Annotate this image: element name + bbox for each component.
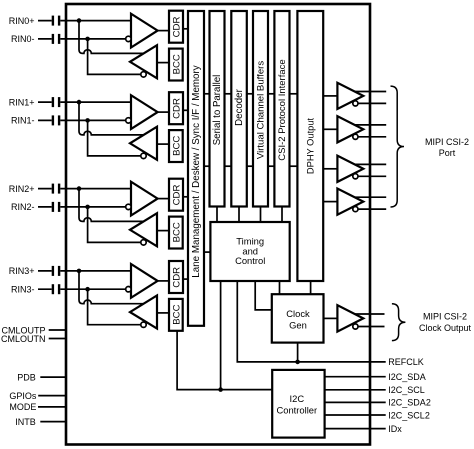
svg-text:CDR: CDR bbox=[172, 17, 183, 38]
svg-text:MIPI CSI-2: MIPI CSI-2 bbox=[423, 312, 467, 322]
wire: amp0 output to CDR bbox=[158, 30, 169, 32]
wire: RIN2+ branch to BCC driver (with hop) bbox=[79, 189, 146, 222]
wire: RIN0- branch to BCC driver bubble bbox=[88, 39, 141, 75]
wire: amp2 output to CDR bbox=[158, 198, 169, 200]
wire: column bottom to Timing&Control x=239.0 bbox=[238, 207, 240, 223]
wire: inter-block connector y=93.8 bbox=[225, 93, 232, 95]
wire RIN1+ bbox=[38, 101, 131, 103]
wire: DPHY Output to Clock Gen top bbox=[310, 281, 312, 294]
op-amp input amplifier A3 bbox=[131, 264, 158, 298]
wire RIN3- bbox=[38, 288, 128, 290]
block U-LANE: Lane Management / Deskew / Sync I/F / Memory bbox=[188, 11, 204, 326]
wire: RIN3+ branch to BCC driver (with hop) bbox=[79, 271, 146, 304]
BCC back-channel driver B1 (left-pointing) bbox=[130, 127, 157, 160]
block U-DEC: Decoder bbox=[231, 11, 247, 207]
wire: port driver 3 + output bbox=[350, 196, 386, 198]
block BCC1 bbox=[169, 130, 183, 162]
capacitor on RIN0- bbox=[52, 34, 54, 44]
wire: BCC box3 to BCC driver bbox=[157, 312, 169, 314]
wire RIN0+ bbox=[38, 20, 131, 22]
op-amp input amplifier A1 bbox=[131, 95, 158, 129]
block CDR2 bbox=[169, 179, 183, 211]
wire: column bottom to Timing&Control x=282.0 bbox=[281, 207, 283, 223]
svg-text:PDB: PDB bbox=[17, 372, 36, 382]
inverting bubble on A1 bbox=[126, 118, 131, 123]
wire: Clock Gen to clock driver bbox=[324, 317, 338, 319]
svg-text:BCC: BCC bbox=[171, 136, 182, 156]
bubble on driver D2 bbox=[353, 174, 358, 179]
op-amp input amplifier A2 bbox=[131, 182, 158, 216]
inverting bubble on A0 bbox=[126, 36, 131, 41]
block U-DPHY: DPHY Output bbox=[297, 11, 323, 281]
wire: INTB stub bbox=[40, 421, 66, 423]
wire: port driver 1 - output bbox=[355, 136, 386, 138]
node: junction RIN3+ bbox=[77, 269, 82, 274]
wire: RIN2- branch to BCC driver bubble bbox=[88, 207, 141, 243]
wire: T&C to Clock Gen left bbox=[255, 281, 272, 310]
wire: inter-block connector y=166.2 bbox=[225, 165, 232, 167]
svg-text:RIN2-: RIN2- bbox=[11, 202, 35, 212]
block CDR3 bbox=[169, 261, 183, 293]
wire: inter-block connector y=93.8 bbox=[247, 93, 253, 95]
bubble on BCC driver B1 bbox=[141, 153, 146, 158]
wire: port driver 2 - output bbox=[355, 175, 386, 177]
wire: amp3 output to CDR bbox=[158, 280, 169, 282]
svg-text:Control: Control bbox=[235, 255, 265, 266]
wire RIN1- bbox=[38, 119, 128, 121]
svg-text:I2C_SDA2: I2C_SDA2 bbox=[388, 398, 431, 408]
block U-S2P: Serial to Parallel bbox=[210, 11, 225, 207]
svg-text:Lane Management / Deskew / Syn: Lane Management / Deskew / Sync I/F / Me… bbox=[191, 65, 202, 277]
node: junction RIN1- bbox=[85, 118, 90, 123]
svg-text:DPHY Output: DPHY Output bbox=[306, 118, 316, 175]
svg-text:RIN3+: RIN3+ bbox=[9, 266, 35, 276]
svg-text:BCC: BCC bbox=[171, 222, 182, 242]
svg-text:I2C_SCL: I2C_SCL bbox=[388, 385, 425, 395]
svg-text:BCC: BCC bbox=[171, 304, 182, 324]
bubble on BCC driver B3 bbox=[141, 322, 146, 327]
wire: inter-block connector y=93.8 bbox=[268, 93, 274, 95]
bubble on driver D1 bbox=[353, 134, 358, 139]
svg-text:CDR: CDR bbox=[172, 185, 183, 206]
wire RIN2+ bbox=[38, 188, 131, 190]
node: junction RIN3- bbox=[85, 287, 90, 292]
block Timing and Control bbox=[210, 222, 289, 281]
wire: inter-block connector y=93.8 bbox=[290, 93, 298, 95]
wire: CMLOUTP stub bbox=[49, 329, 66, 331]
block BCC3 bbox=[169, 299, 183, 331]
block CDR1 bbox=[169, 92, 183, 124]
wire: DPHY to port driver 1 bbox=[323, 128, 337, 130]
capacitor on RIN2+ bbox=[52, 184, 54, 194]
buffer/driver D3 bbox=[337, 189, 363, 215]
wire: port driver 0 + output bbox=[350, 91, 386, 93]
svg-text:REFCLK: REFCLK bbox=[388, 357, 424, 367]
inverting bubble on A3 bbox=[126, 287, 131, 292]
wire: BCC box2 to BCC driver bbox=[157, 230, 169, 232]
svg-text:I2C_SCL2: I2C_SCL2 bbox=[388, 410, 430, 420]
capacitor on RIN3+ bbox=[52, 266, 54, 276]
svg-text:Clock Output: Clock Output bbox=[419, 323, 472, 333]
wire: inter-block connector y=166.2 bbox=[247, 165, 253, 167]
wire: clock driver + output bbox=[350, 313, 385, 315]
svg-text:INTB: INTB bbox=[15, 417, 36, 427]
bubble on BCC driver B0 bbox=[141, 72, 146, 77]
wire: CDR1 to Lane Management bbox=[183, 109, 188, 111]
wire: I2C_SDA2 bbox=[325, 401, 386, 403]
svg-text:I2C: I2C bbox=[290, 393, 305, 404]
brace: MIPI CSI-2 Port group bbox=[391, 86, 405, 207]
wire: BCC box1 to BCC driver bbox=[157, 143, 169, 145]
wire: CDR3 to Lane Management bbox=[183, 278, 188, 280]
wire: IDx bbox=[325, 428, 386, 430]
svg-text:CDR: CDR bbox=[172, 98, 183, 119]
svg-text:RIN1+: RIN1+ bbox=[9, 97, 35, 107]
wire: T&C to Clock Gen top bbox=[279, 281, 281, 294]
svg-text:MODE: MODE bbox=[9, 402, 36, 412]
block I2C Controller bbox=[272, 370, 324, 438]
capacitor on RIN1- bbox=[52, 115, 54, 125]
wire RIN0- bbox=[38, 38, 128, 40]
block BCC0 bbox=[169, 49, 183, 81]
wire: CMLOUTN stub bbox=[49, 338, 66, 340]
brace: MIPI CSI-2 Clock Output group bbox=[392, 304, 406, 341]
wire: T&C to REFCLK bbox=[237, 281, 385, 362]
capacitor on RIN2- bbox=[52, 202, 54, 212]
buffer/driver D0 bbox=[337, 83, 363, 109]
wire: MODE stub bbox=[38, 406, 66, 408]
svg-text:BCC: BCC bbox=[171, 54, 182, 74]
svg-text:Clock: Clock bbox=[286, 308, 310, 319]
capacitor on RIN3- bbox=[52, 284, 54, 294]
wire: DPHY to port driver 2 bbox=[323, 168, 337, 170]
wire: RIN3- branch to BCC driver bubble bbox=[88, 289, 141, 325]
wire: Clock Gen bottom to REFCLK line bbox=[297, 343, 299, 362]
svg-text:Decoder: Decoder bbox=[234, 88, 245, 125]
svg-text:Virtual Channel Buffers: Virtual Channel Buffers bbox=[256, 61, 267, 160]
node: junction Clock Gen / REFCLK bbox=[295, 360, 300, 365]
svg-text:RIN3-: RIN3- bbox=[11, 284, 35, 294]
BCC back-channel driver B2 (left-pointing) bbox=[130, 213, 157, 246]
wire RIN2- bbox=[38, 206, 128, 208]
block CDR0 bbox=[169, 11, 183, 43]
wire: column bottom to Timing&Control x=217.0 bbox=[216, 207, 218, 223]
svg-text:MIPI CSI-2: MIPI CSI-2 bbox=[425, 137, 469, 147]
svg-text:IDx: IDx bbox=[388, 424, 402, 434]
block BCC2 bbox=[169, 217, 183, 249]
svg-text:RIN0-: RIN0- bbox=[11, 34, 35, 44]
wire: BCC box0 to BCC driver bbox=[157, 62, 169, 64]
wire: inter-block connector y=166.2 bbox=[268, 165, 274, 167]
wire: RIN1- branch to BCC driver bubble bbox=[88, 120, 141, 155]
wire: BCC chain to I2C Controller bbox=[177, 330, 272, 390]
svg-text:RIN1-: RIN1- bbox=[11, 116, 35, 126]
wire: DPHY to port driver 0 bbox=[323, 95, 337, 97]
svg-text:CSI-2 Protocol Interface: CSI-2 Protocol Interface bbox=[277, 59, 288, 160]
svg-text:CMLOUTN: CMLOUTN bbox=[1, 334, 46, 344]
inverting bubble on A2 bbox=[126, 204, 131, 209]
wire: RIN1+ branch to BCC driver (with hop) bbox=[79, 102, 146, 135]
wire: clock driver - output bbox=[355, 326, 384, 328]
bubble on BCC driver B2 bbox=[141, 240, 146, 245]
wire: inter-block connector y=166.2 bbox=[290, 165, 298, 167]
wire: port driver 2 + output bbox=[350, 163, 386, 165]
svg-text:RIN2+: RIN2+ bbox=[9, 184, 35, 194]
wire: inter-block connector y=93.8 bbox=[204, 93, 210, 95]
wire: amp1 output to CDR bbox=[158, 111, 169, 113]
node: junction RIN1+ bbox=[77, 100, 82, 105]
wire: CDR2 to Lane Management bbox=[183, 196, 188, 198]
chip boundary box bbox=[66, 4, 370, 445]
wire: I2C_SDA bbox=[325, 376, 386, 378]
node: junction RIN0+ bbox=[77, 18, 82, 23]
svg-text:Port: Port bbox=[439, 148, 456, 158]
wire: port driver 3 - output bbox=[355, 208, 386, 210]
wire: PDB stub bbox=[40, 376, 66, 378]
buffer/driver D1 bbox=[337, 116, 363, 142]
block U-VCB: Virtual Channel Buffers bbox=[253, 11, 268, 207]
node: junction T&C / I2C bus bbox=[218, 387, 223, 392]
wire: T&C to I2C bus vertical bbox=[220, 281, 222, 390]
wire: inter-block connector y=166.2 bbox=[204, 165, 210, 167]
svg-text:RIN0+: RIN0+ bbox=[9, 16, 35, 26]
wire: GPIOs stub bbox=[38, 395, 66, 397]
BCC back-channel driver B0 (left-pointing) bbox=[130, 45, 157, 78]
buffer/driver D2 bbox=[337, 156, 363, 182]
bubble on driver D3 bbox=[353, 207, 358, 212]
svg-text:Gen: Gen bbox=[289, 319, 307, 330]
capacitor on RIN1+ bbox=[52, 97, 54, 107]
wire: DPHY to port driver 3 bbox=[323, 201, 337, 203]
svg-text:Controller: Controller bbox=[276, 404, 317, 415]
wire: RIN0+ branch to BCC driver (with hop) bbox=[79, 21, 146, 54]
node: junction RIN2+ bbox=[77, 186, 82, 191]
wire: I2C_SCL bbox=[325, 389, 386, 391]
buffer/driver clock bbox=[337, 305, 363, 331]
node: junction RIN0- bbox=[85, 37, 90, 42]
bubble on clock driver bbox=[353, 324, 358, 329]
wire: I2C_SCL2 bbox=[325, 414, 386, 416]
svg-text:GPIOs: GPIOs bbox=[9, 391, 37, 401]
block U-CSI: CSI-2 Protocol Interface bbox=[274, 11, 289, 207]
capacitor on RIN0+ bbox=[52, 16, 54, 26]
wire: port driver 0 - output bbox=[355, 102, 386, 104]
svg-text:Serial to Parallel: Serial to Parallel bbox=[212, 75, 223, 146]
node: junction RIN2- bbox=[85, 205, 90, 210]
svg-text:I2C_SDA: I2C_SDA bbox=[388, 372, 426, 382]
BCC back-channel driver B3 (left-pointing) bbox=[130, 296, 157, 329]
wire: CDR0 to Lane Management bbox=[183, 28, 188, 30]
wire RIN3+ bbox=[38, 270, 131, 272]
wire: port driver 1 + output bbox=[350, 124, 386, 126]
bubble on driver D0 bbox=[353, 101, 358, 106]
block Clock Gen bbox=[272, 294, 324, 342]
op-amp input amplifier A0 bbox=[131, 14, 158, 48]
svg-text:CDR: CDR bbox=[172, 267, 183, 288]
wire: Lane Mgmt to Timing&Control bbox=[204, 251, 210, 253]
wire: column bottom to Timing&Control x=260.5 bbox=[260, 207, 262, 223]
